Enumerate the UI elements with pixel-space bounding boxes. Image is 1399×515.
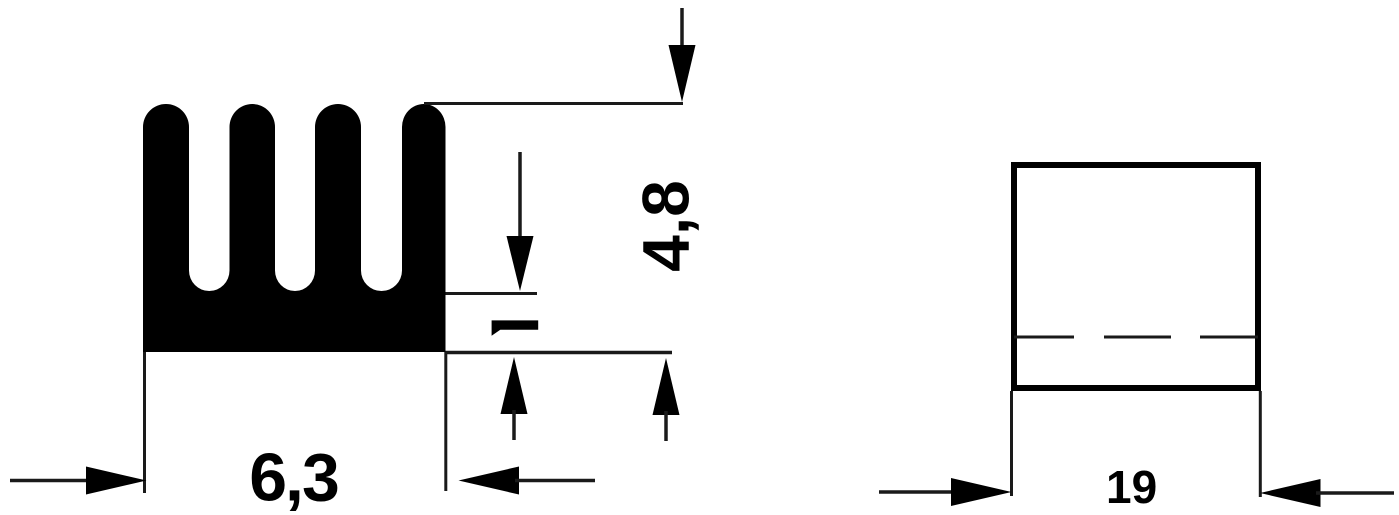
label 6,3	[249, 440, 338, 515]
base bottom reference line (right, for 1 and 4,8 dims)	[446, 351, 673, 355]
dim 6,3 left arrow (points right)	[10, 467, 147, 495]
extension line right (6,3 dim)	[444, 352, 447, 491]
label 19	[1106, 461, 1157, 513]
dim 4,8 up arrow	[653, 358, 680, 441]
side view body outline (square)	[1014, 165, 1258, 388]
hidden/step dashed line inside body	[1014, 336, 1258, 339]
dim 1 up arrow	[501, 357, 528, 440]
extension line left (19 dim)	[1010, 391, 1013, 496]
dim 19 right arrow (points left)	[1260, 479, 1394, 507]
dim 19 left arrow (points right)	[879, 478, 1012, 506]
svg-text:19: 19	[1106, 461, 1157, 513]
extension line right (19 dim)	[1259, 391, 1262, 497]
extension line left (6,3 dim)	[143, 352, 146, 493]
svg-text:4,8: 4,8	[629, 180, 703, 272]
heatsink extruded profile (cross-section, 4 fins)	[143, 104, 446, 352]
svg-text:6,3: 6,3	[249, 440, 338, 515]
extension line from fin top (right, for 4,8 dim)	[424, 102, 683, 105]
dim 1 upper line	[446, 292, 538, 295]
dim 1 down arrow	[507, 152, 534, 291]
label 1 (rotated)	[492, 320, 539, 335]
label 4,8 (rotated)	[629, 180, 703, 272]
dim 4,8 top arrow (down)	[669, 8, 696, 102]
dim 6,3 right arrow (points left)	[459, 467, 596, 495]
